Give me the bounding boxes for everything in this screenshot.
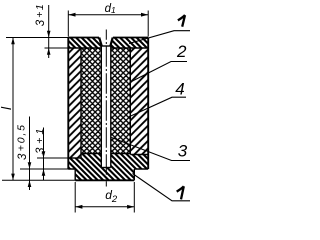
svg-text:3+0,5: 3+0,5: [16, 123, 29, 160]
svg-text:4: 4: [175, 80, 184, 99]
svg-text:3+1: 3+1: [34, 3, 47, 26]
svg-text:d1: d1: [105, 3, 116, 15]
svg-text:3: 3: [178, 141, 188, 160]
svg-text:3+1: 3+1: [34, 125, 47, 154]
svg-text:2: 2: [176, 42, 187, 61]
